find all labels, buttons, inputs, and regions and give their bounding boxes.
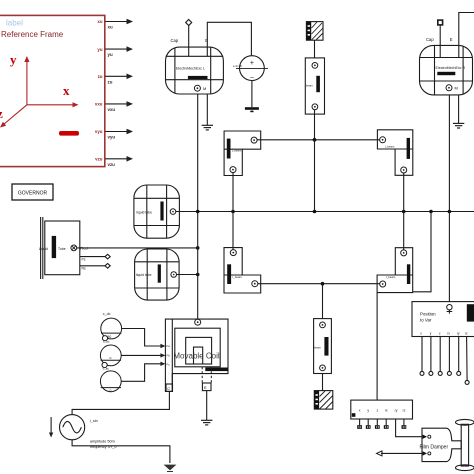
black box icon	[467, 304, 474, 321]
svg-text:i_sin: i_sin	[90, 419, 98, 423]
svg-text:o: o	[110, 356, 112, 360]
port vxu	[95, 101, 133, 112]
junction middle lower	[321, 282, 325, 286]
junction bus machine wire	[196, 210, 200, 214]
svg-text:yu: yu	[97, 47, 102, 52]
wire bus wrap to L4 right	[413, 212, 431, 292]
svg-text:vzu: vzu	[95, 157, 103, 162]
svg-text:c_ac: c_ac	[103, 366, 110, 370]
svg-text:to Var: to Var	[420, 317, 432, 322]
film damper port 2	[423, 451, 427, 455]
svg-text:o: o	[110, 389, 112, 393]
svg-text:rx: rx	[447, 331, 450, 335]
ground earth left machine	[202, 125, 213, 130]
junction on machine wire	[196, 246, 200, 250]
junction bus L1	[231, 210, 235, 214]
svg-text:y: y	[10, 52, 17, 67]
source voltage circle	[240, 56, 265, 81]
block GOVERNOR	[12, 184, 53, 200]
wire source2 to coil port b	[121, 354, 161, 356]
block Reference Frame	[0, 15, 105, 166]
port M right machine	[446, 85, 452, 91]
svg-text:e·b²·dl: e·b²·dl	[233, 64, 242, 68]
svg-text:yu: yu	[108, 52, 113, 57]
wire port5 to film damper	[396, 419, 422, 437]
rotor ellipse bottom	[456, 465, 474, 471]
svg-text:z: z	[376, 408, 378, 412]
svg-text:Fa: Fa	[167, 344, 171, 348]
svg-text:amplitude 50m: amplitude 50m	[90, 439, 115, 443]
svg-text:Liquid: Liquid	[39, 247, 48, 251]
block spring L1	[224, 131, 261, 176]
svg-text:rz: rz	[465, 331, 468, 335]
svg-text:Fb: Fb	[167, 354, 171, 358]
svg-text:rx: rx	[385, 408, 388, 412]
wire LT2 to machine wire	[177, 274, 198, 276]
svg-text:z: z	[0, 106, 3, 121]
source circle 3	[100, 371, 121, 393]
svg-text:ElectroMechExc R: ElectroMechExc R	[436, 66, 466, 70]
stub P with diamond	[80, 254, 110, 259]
svg-text:ry: ry	[395, 408, 398, 412]
svg-text:zu: zu	[98, 74, 103, 79]
coil spiral	[175, 328, 220, 367]
stub R with diamond	[80, 264, 110, 269]
svg-text:Rs: Rs	[82, 267, 86, 271]
wire L2 bottom to L4 top	[403, 173, 405, 250]
block liquid tank	[41, 217, 80, 279]
svg-text:c_dc: c_dc	[103, 312, 111, 316]
source circle 1	[101, 318, 122, 344]
svg-text:Movable Coil: Movable Coil	[173, 352, 219, 361]
wire L1 to L2 horizontal	[257, 139, 380, 141]
svg-text:Reference Frame: Reference Frame	[1, 30, 64, 39]
wire source to ground	[251, 81, 253, 108]
port circle Movable Coil top	[195, 319, 201, 325]
svg-text:Cap: Cap	[426, 37, 434, 42]
block machine right	[420, 45, 473, 95]
wire right machine ground	[458, 95, 460, 124]
block film damper	[422, 428, 461, 461]
source circle 2	[100, 345, 121, 370]
ground earth under coil	[201, 420, 212, 425]
svg-text:zu: zu	[108, 79, 113, 84]
axis x	[27, 102, 79, 107]
wire E right up and off canvas	[459, 13, 474, 58]
block machine left	[166, 47, 224, 94]
svg-text:label: label	[6, 19, 23, 28]
frame output ports	[95, 19, 133, 167]
wire sine top to coil column	[72, 391, 169, 414]
stubs to open circles	[422, 337, 467, 381]
port vyu	[95, 129, 133, 140]
wire E box to ground	[206, 391, 208, 421]
svg-text:vyu: vyu	[95, 129, 103, 134]
ground bar voltage source	[245, 107, 259, 110]
svg-text:beam: beam	[314, 345, 322, 349]
bottom labels	[420, 331, 468, 335]
port yu	[97, 46, 133, 57]
block liquid tube 2	[135, 249, 180, 300]
svg-text:vzu: vzu	[108, 162, 116, 167]
svg-text:y: y	[367, 408, 369, 412]
rotor rect	[461, 424, 468, 466]
block spring L3	[224, 248, 261, 293]
wire junction down to bus	[314, 140, 316, 212]
wire clamp to beam block	[314, 40, 316, 58]
block spring L4	[377, 248, 413, 293]
wire Cap up to diamond terminator	[188, 25, 190, 56]
svg-text:Cap: Cap	[171, 38, 179, 43]
axis z	[0, 105, 27, 128]
svg-text:M: M	[455, 86, 458, 91]
junction bus machine right	[448, 210, 452, 214]
source sine	[60, 415, 85, 440]
svg-text:M: M	[203, 86, 206, 91]
wire M down long	[197, 94, 199, 319]
wire L4 corner down to xyz block	[376, 293, 378, 401]
junction bus center	[313, 210, 317, 214]
svg-text:C: C	[167, 386, 170, 391]
block position to var	[412, 302, 474, 337]
wire Cap right to square terminator	[439, 25, 441, 58]
port zu	[98, 74, 133, 85]
wire main bus	[176, 211, 474, 213]
ground earth right machine	[453, 123, 464, 128]
svg-text:x: x	[63, 83, 70, 98]
black bar coil	[205, 368, 228, 372]
svg-text:Tube: Tube	[58, 247, 66, 251]
rotor ellipse top	[456, 419, 474, 425]
port vzu	[95, 156, 133, 167]
wire sine bottom to ground	[72, 440, 170, 463]
svg-text:t_beam: t_beam	[232, 275, 242, 279]
svg-text:t_beam: t_beam	[385, 145, 395, 149]
svg-text:rz: rz	[403, 408, 406, 412]
svg-text:+: +	[250, 60, 254, 67]
svg-text:GOVERNOR: GOVERNOR	[18, 191, 48, 197]
svg-text:c_ac: c_ac	[103, 340, 110, 344]
clamp hatched box top	[306, 22, 323, 41]
svg-text:E: E	[450, 37, 453, 42]
port box C column bottom	[166, 384, 173, 391]
film damper port 1	[423, 435, 427, 439]
axis y	[24, 56, 29, 105]
svg-text:x: x	[359, 408, 361, 412]
wire L1 bottom to L3 top	[232, 173, 234, 250]
block var to position	[351, 400, 413, 419]
port xu	[97, 19, 133, 30]
port M left machine	[194, 85, 200, 91]
wire source3 to coil port c	[121, 364, 161, 382]
svg-text:vxu: vxu	[108, 107, 116, 112]
block Movable Coil	[165, 319, 228, 391]
svg-text:beam: beam	[306, 83, 314, 87]
wire E up then right to source	[207, 22, 251, 56]
svg-text:Film Damper: Film Damper	[420, 444, 449, 450]
svg-text:ElectroMechExc L: ElectroMechExc L	[176, 67, 205, 71]
svg-text:liquid tube: liquid tube	[136, 273, 152, 277]
svg-text:t_beam: t_beam	[386, 275, 396, 279]
wire L3 to L4 horizontal	[258, 283, 380, 285]
clamp hatched box bottom	[314, 391, 333, 410]
svg-text:E: E	[204, 385, 207, 390]
wire to ground left machine	[206, 94, 208, 125]
port Rect	[71, 245, 89, 251]
svg-text:liquid tube: liquid tube	[137, 210, 153, 214]
junction bus wrap	[429, 210, 433, 214]
block liquid tube 1	[134, 185, 180, 238]
svg-text:xu: xu	[97, 19, 102, 24]
dashed moving part	[202, 367, 211, 383]
svg-text:ry: ry	[457, 331, 460, 335]
block beam top	[305, 58, 324, 114]
stubs with caps	[360, 419, 404, 425]
input arrow line	[381, 452, 422, 454]
wire M right down to position block	[448, 95, 450, 302]
svg-text:vxu: vxu	[95, 102, 103, 107]
junction beam/L wire	[313, 138, 317, 142]
arrow down indicator	[50, 417, 52, 434]
port box E under coil	[202, 383, 211, 391]
sensor icon	[447, 305, 452, 310]
svg-text:xu: xu	[108, 25, 113, 30]
svg-text:t_beam: t_beam	[232, 149, 242, 153]
svg-text:vyu: vyu	[108, 135, 116, 140]
block beam mid	[314, 319, 332, 374]
svg-text:Position: Position	[420, 312, 436, 317]
wire junction down to beam mid	[322, 284, 324, 319]
wire beam top to spring junction	[314, 110, 316, 140]
wire beam mid to clamp bottom	[322, 374, 324, 391]
wire Rect to machine wire	[77, 247, 198, 249]
ground triangle	[164, 465, 177, 471]
red dash marker	[59, 131, 79, 136]
block spring L2	[377, 130, 412, 176]
junction bus L2	[402, 210, 406, 214]
wire source1 to coil port a	[122, 329, 161, 347]
svg-text:Ps: Ps	[82, 257, 86, 261]
